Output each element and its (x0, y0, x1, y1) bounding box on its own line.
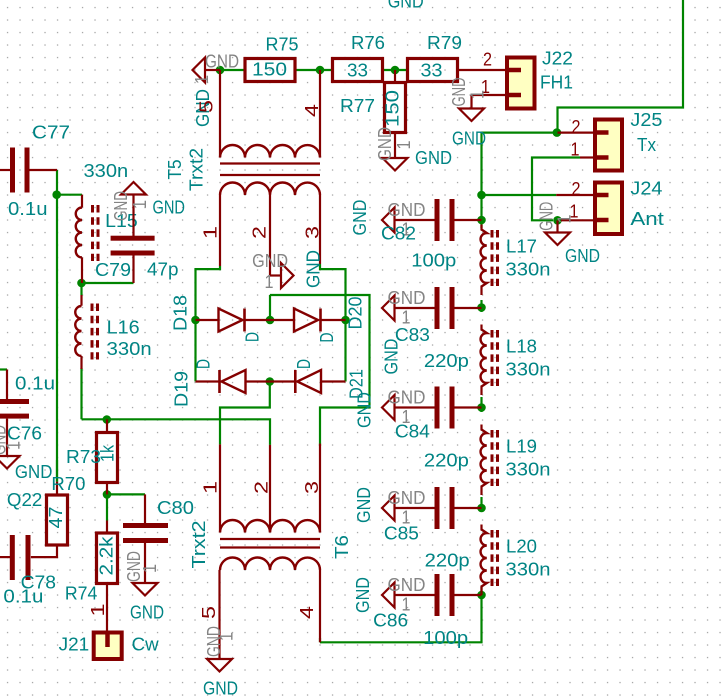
power GND at J24 pin1 (536, 202, 575, 245)
label R77 (340, 95, 375, 116)
junction ring top-mid (266, 316, 275, 325)
wire ring mid down to T6 pin1 (220, 382, 270, 445)
junction at J25 pin 2 net (553, 128, 562, 137)
label T6 (331, 535, 352, 559)
svg-text:1: 1 (200, 481, 221, 494)
label T5 (164, 160, 185, 180)
label R76 (351, 32, 385, 53)
label GND teal C82 (349, 200, 370, 236)
connector J22 (507, 58, 535, 109)
svg-text:GND: GND (388, 387, 426, 408)
svg-text:GND: GND (352, 577, 373, 613)
svg-text:GND: GND (381, 339, 402, 375)
label J25 (630, 109, 662, 130)
resistor R77 (385, 70, 406, 158)
inductor L17 (481, 225, 498, 296)
label GND teal J22 (452, 128, 486, 149)
svg-text:47: 47 (45, 507, 66, 529)
pin 4 T5 (301, 104, 322, 117)
svg-text:D20: D20 (345, 297, 366, 330)
svg-text:Tx: Tx (637, 134, 657, 155)
wire right column 195-220 (480, 195, 482, 220)
resistor R70 (31, 482, 68, 557)
label Tx J25 (637, 134, 657, 155)
svg-text:GND: GND (303, 250, 324, 288)
wire ring top rectangle (270, 295, 370, 444)
wire J24 pin 2 (482, 194, 557, 196)
wire R75 left (220, 69, 245, 71)
label R75 (266, 34, 299, 55)
value 330n L16 (107, 338, 152, 359)
label L16 (107, 317, 140, 338)
svg-text:1: 1 (200, 226, 221, 239)
svg-text:1k: 1k (97, 444, 118, 462)
svg-text:GND: GND (388, 487, 426, 508)
svg-text:T5: T5 (164, 160, 185, 180)
svg-text:1: 1 (571, 139, 580, 160)
label D of D18 (242, 332, 263, 342)
wire GND bus top right (558, 0, 684, 129)
svg-text:3: 3 (302, 226, 323, 239)
capacitor C82 (395, 199, 482, 241)
transformer T5 secondary (220, 183, 320, 276)
svg-text:330n: 330n (107, 338, 152, 359)
wire right column above C85 (480, 497, 482, 508)
svg-text:D: D (293, 359, 314, 369)
junction ring bottom-mid (266, 377, 275, 386)
transformer T5 core (220, 164, 320, 176)
junction right column / C83 (477, 303, 486, 312)
capacitor C76 (0, 370, 29, 457)
label Cw J21 (132, 634, 160, 655)
wire C76 entry (0, 368, 7, 370)
svg-text:L16: L16 (107, 317, 140, 338)
wire right column to bottom bus (320, 595, 482, 642)
diode D20 (270, 309, 346, 332)
svg-text:1: 1 (216, 632, 237, 641)
value 2.2k R74 (96, 536, 117, 576)
pin 1 J21 (87, 604, 108, 617)
diode D21 (270, 370, 346, 393)
inductor L20 (481, 525, 498, 596)
pin 2 T5 (249, 226, 270, 239)
transformer T6 secondary (220, 444, 320, 533)
svg-text:2: 2 (572, 116, 581, 137)
svg-text:C77: C77 (32, 122, 70, 143)
svg-text:R74: R74 (65, 583, 98, 604)
svg-text:1: 1 (191, 75, 212, 84)
label FH1 J22 (540, 72, 573, 93)
capacitor C79 (111, 236, 155, 283)
label GND teal T5 pin3 (303, 250, 324, 288)
pin 2 J22 (483, 49, 492, 70)
pin 1 T6 (200, 481, 221, 494)
pin 1 J25 (571, 139, 580, 160)
svg-text:33: 33 (421, 60, 443, 81)
label Trxt2 T6 (188, 521, 209, 569)
svg-text:Q22: Q22 (7, 489, 42, 510)
svg-text:150: 150 (382, 90, 403, 127)
svg-text:220p: 220p (424, 450, 469, 471)
resistor R79 (408, 59, 458, 82)
label D of D19 (193, 359, 214, 369)
label GND teal C86 (352, 577, 373, 613)
label GND teal T6 pin5 (203, 678, 238, 699)
svg-text:GND: GND (203, 678, 238, 699)
label L18 (506, 336, 537, 357)
svg-text:GND: GND (452, 128, 486, 149)
svg-text:47p: 47p (147, 259, 179, 280)
connector J24 (595, 183, 622, 235)
svg-text:1: 1 (139, 564, 160, 573)
label J24 (630, 178, 662, 199)
wire R73 bottom junction (103, 490, 112, 499)
svg-text:GND: GND (353, 487, 374, 523)
value 150 R77 (382, 90, 403, 127)
pin 1 T5 (200, 226, 221, 239)
value 150 R75 (252, 59, 287, 80)
wire right column above C83 (480, 300, 482, 308)
svg-text:1: 1 (393, 141, 414, 150)
pin 5 T5 (196, 100, 217, 113)
svg-text:J21: J21 (59, 634, 90, 655)
capacitor C86 (395, 574, 482, 616)
svg-text:C82: C82 (381, 223, 416, 244)
junction R76 right / R77 (391, 66, 400, 75)
label GND top (388, 0, 424, 12)
svg-text:100p: 100p (423, 627, 468, 648)
svg-text:2: 2 (483, 49, 492, 70)
value 330n L15 (84, 160, 129, 181)
wire right column above C86 (480, 587, 482, 595)
power GND at C82 (382, 199, 426, 240)
wire junction to L15 (57, 194, 82, 196)
label J21 (59, 634, 90, 655)
transformer T6 primary (220, 558, 321, 660)
wire T5 pin3 to ring (320, 264, 346, 317)
svg-text:D18: D18 (170, 295, 191, 331)
power GND at C83 (382, 287, 426, 328)
svg-text:GND: GND (565, 245, 600, 266)
svg-text:1: 1 (87, 604, 108, 617)
power GND at C76 (0, 425, 24, 469)
resistor R74 (97, 521, 118, 633)
label Ant J24 (630, 208, 664, 229)
svg-text:R75: R75 (266, 34, 299, 55)
label R70 (51, 473, 85, 494)
svg-text:GND: GND (252, 250, 288, 271)
svg-text:100p: 100p (411, 250, 456, 271)
junction J24 pin1 / GND pin (553, 216, 562, 225)
svg-text:J22: J22 (542, 48, 573, 69)
svg-text:C80: C80 (157, 497, 194, 518)
resistor R73 (97, 419, 118, 494)
svg-text:0.1u: 0.1u (3, 586, 43, 607)
svg-text:GND: GND (110, 191, 131, 221)
svg-text:GND: GND (130, 602, 164, 623)
capacitor C77 (0, 148, 57, 193)
svg-text:GND: GND (15, 461, 53, 482)
pin 3 T6 (301, 481, 322, 494)
value 0.1u C78 (3, 586, 43, 607)
connector J21 (94, 633, 122, 660)
junction ring top-left (191, 316, 200, 325)
wire L15 node to C79 (82, 282, 134, 284)
label D21 (346, 369, 367, 399)
wire left bus down to R70 (56, 195, 58, 482)
power GND at T6 pin5 (203, 626, 237, 672)
label L20 (506, 536, 537, 557)
svg-text:330n: 330n (506, 259, 551, 280)
svg-text:D19: D19 (171, 371, 192, 407)
svg-text:5: 5 (198, 606, 219, 619)
svg-text:C84: C84 (395, 421, 430, 442)
junction R75 right / T5 pin4 (316, 66, 325, 75)
svg-text:C79: C79 (95, 259, 131, 280)
value 330n L20 (506, 559, 551, 580)
pin 1 J22 (481, 76, 490, 97)
label GND teal R77 (415, 147, 452, 168)
label R73 (66, 446, 101, 467)
svg-text:D: D (316, 333, 337, 343)
svg-text:L18: L18 (506, 336, 537, 357)
svg-text:330n: 330n (506, 459, 551, 480)
capacitor C78 (0, 535, 31, 580)
value 0.1u C77 (8, 198, 48, 219)
wire C77 node down (56, 170, 58, 195)
svg-text:2.2k: 2.2k (96, 536, 117, 576)
svg-text:C85: C85 (384, 523, 419, 544)
wire T5 pin1 to ring (196, 266, 221, 317)
inductor L18 (481, 325, 498, 396)
svg-text:GND: GND (354, 392, 375, 428)
svg-text:220p: 220p (425, 550, 470, 571)
wire right column below C84 (480, 408, 482, 413)
wire T6 pin3 stub (319, 444, 321, 446)
wire T6 pin4 bottom (319, 638, 321, 642)
transformer T6 core (220, 539, 320, 548)
capacitor C84 (395, 387, 482, 429)
power GND at C86 (382, 574, 426, 615)
label C78 (21, 572, 56, 593)
label L17 (506, 236, 537, 257)
svg-text:GND: GND (415, 147, 452, 168)
power GND at R77 (374, 127, 414, 171)
power GND at C84 (382, 387, 426, 428)
svg-text:L17: L17 (506, 236, 537, 257)
wire ring left vertical (194, 320, 196, 382)
label GND teal J24 (565, 245, 600, 266)
svg-text:0.1u: 0.1u (15, 373, 55, 394)
label GND teal C85 (353, 487, 374, 523)
junction right column / C84 (477, 403, 486, 412)
svg-text:1: 1 (129, 200, 150, 209)
junction bus / R73 (103, 415, 112, 424)
label C76 (7, 423, 42, 444)
label Trxt2 T5 (186, 148, 207, 191)
labels C86 (373, 610, 468, 649)
pin lead J25 pin1 (580, 156, 595, 158)
pin 3 T5 (302, 226, 323, 239)
transformer T5 primary (220, 70, 320, 158)
power GND at C79 (110, 182, 150, 236)
svg-text:1: 1 (265, 271, 274, 292)
wire right column below C85 (480, 508, 482, 512)
svg-text:Cw: Cw (132, 634, 160, 655)
svg-text:GND: GND (388, 574, 426, 595)
junction right column / J24 pin 2 (477, 191, 486, 200)
svg-text:L20: L20 (506, 536, 537, 557)
pin 2 J25 (572, 116, 581, 137)
pin lead J24 pin2 (556, 194, 595, 196)
svg-text:3: 3 (301, 481, 322, 494)
label R79 (427, 32, 462, 53)
capacitor C80 (123, 494, 168, 583)
resistor R75 (245, 59, 295, 82)
label J22 (542, 48, 573, 69)
capacitor C83 (395, 287, 482, 329)
labels C82 (381, 223, 456, 271)
svg-text:R76: R76 (351, 32, 385, 53)
value 33 R79 (421, 60, 443, 81)
svg-text:1: 1 (554, 215, 575, 224)
inductor L19 (481, 425, 498, 496)
svg-text:R79: R79 (427, 32, 462, 53)
pin 1 J24 (570, 201, 579, 222)
label L19 (506, 436, 537, 457)
power GND at C80 (123, 551, 160, 596)
label D19 (171, 371, 192, 407)
labels C83 (395, 324, 469, 371)
labels C84 (395, 421, 469, 471)
diode D18 (196, 309, 271, 332)
junction L15 / C79 / L16 (77, 279, 86, 288)
junction right column / C82 (477, 216, 486, 225)
svg-text:R70: R70 (51, 473, 85, 494)
svg-text:C76: C76 (7, 423, 42, 444)
value 47 R70 (45, 507, 66, 529)
power GND at R75 left (191, 51, 239, 85)
svg-text:L19: L19 (506, 436, 537, 457)
label GND teal C84 (354, 392, 375, 428)
svg-text:33: 33 (347, 60, 368, 81)
svg-text:D: D (193, 359, 214, 369)
svg-text:0.1u: 0.1u (8, 198, 48, 219)
svg-text:GND: GND (153, 197, 186, 218)
svg-text:GND: GND (374, 127, 395, 161)
value 330n L17 (506, 259, 551, 280)
junction right column / C86 (477, 591, 486, 600)
label GND teal T5 left (192, 89, 213, 127)
inductor L15 (76, 195, 98, 283)
junction C77 / L15 / bus (52, 190, 61, 199)
svg-text:GND: GND (349, 200, 370, 236)
label GND teal C80 (130, 602, 164, 623)
wire ring mid up (269, 295, 271, 320)
svg-text:Trxt2: Trxt2 (188, 521, 209, 569)
label D20 (345, 297, 366, 330)
wire y70 R75-R76 (295, 69, 333, 71)
pin 5 T6 (198, 606, 219, 619)
wire y70 R76-R79 (383, 69, 408, 71)
resistor R76 (333, 59, 383, 82)
inductor L16 (75, 295, 97, 369)
value 0.1u C76 (15, 373, 55, 394)
wire horizontal bus to T6 pin2 (82, 419, 271, 445)
wire J25 pin2 to left corner (482, 133, 555, 192)
junction ring top-right (341, 316, 350, 325)
wire J22 pin1 (472, 94, 508, 96)
value 33 R76 (347, 60, 368, 81)
wire right column below C83 (480, 308, 482, 313)
svg-text:5: 5 (196, 100, 217, 113)
svg-text:T6: T6 (331, 535, 352, 559)
svg-text:330n: 330n (84, 160, 129, 181)
svg-text:FH1: FH1 (540, 72, 573, 93)
svg-text:GND: GND (388, 0, 424, 12)
svg-text:1: 1 (3, 441, 24, 450)
wire ring right vertical (344, 320, 346, 382)
svg-text:R77: R77 (340, 95, 375, 116)
power GND at C85 (382, 487, 426, 528)
pin lead J25 pin2 (558, 132, 596, 134)
svg-text:150: 150 (252, 59, 287, 80)
wire right column above C84 (480, 397, 482, 408)
svg-text:2: 2 (251, 481, 272, 494)
label C80 (157, 497, 194, 518)
svg-text:GND: GND (388, 199, 426, 220)
svg-text:4: 4 (301, 104, 322, 117)
diode D19 (196, 370, 270, 393)
svg-text:220p: 220p (424, 350, 469, 371)
wire right column 220-307 (480, 220, 482, 228)
label GND teal C76 (15, 461, 53, 482)
svg-text:J24: J24 (630, 178, 662, 199)
pin lead J24 pin1 (561, 219, 595, 221)
label Q22 (7, 489, 42, 510)
wire J25 pin1 run (532, 158, 580, 221)
connector J25 (595, 120, 622, 171)
svg-text:D: D (242, 332, 263, 342)
svg-text:Trxt2: Trxt2 (186, 148, 207, 191)
label L15 (105, 210, 138, 231)
wire R79 to J22 (458, 69, 508, 71)
svg-text:J25: J25 (630, 109, 662, 130)
svg-text:2: 2 (249, 226, 270, 239)
svg-text:330n: 330n (506, 359, 551, 380)
label GND teal C83 (381, 339, 402, 375)
value 47p C79 (147, 259, 179, 280)
labels C85 (384, 523, 470, 571)
svg-text:C86: C86 (373, 610, 408, 631)
junction T5 top-left / GND (216, 66, 225, 75)
label C77 (32, 122, 70, 143)
junction right column / C85 (477, 504, 486, 513)
pin 2 T6 (251, 481, 272, 494)
svg-text:4: 4 (296, 606, 317, 619)
label C79 (95, 259, 131, 280)
power GND at T5 pin2 (252, 250, 293, 292)
wire R70 top (56, 460, 58, 482)
wire L16 top stub (80, 283, 82, 295)
capacitor C85 (395, 487, 482, 529)
svg-text:Ant: Ant (630, 208, 664, 229)
label GND teal C79 (153, 197, 186, 218)
svg-text:GND: GND (388, 287, 426, 308)
value 1k R73 (97, 444, 118, 462)
label D of D20 (316, 333, 337, 343)
label R74 (65, 583, 98, 604)
